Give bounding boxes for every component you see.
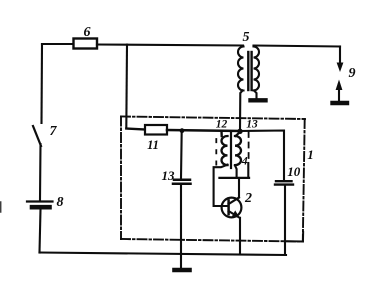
svg-text:11: 11 xyxy=(147,138,159,152)
block 1 dashed boundary top xyxy=(121,117,305,120)
svg-text:1: 1 xyxy=(307,147,314,162)
wire left vertical upper xyxy=(40,44,43,123)
transformer 5 core bar left xyxy=(247,52,249,90)
transistor 2 emitter arrow xyxy=(232,210,240,217)
capacitor 10 bottom plate xyxy=(275,183,293,185)
block 1 dashed boundary right xyxy=(303,119,305,242)
block 1 dashed boundary bottom xyxy=(121,239,303,242)
winding 12 bottom lead to base bracket xyxy=(214,165,228,206)
transistor 2 collector stroke xyxy=(229,198,239,205)
transformer 5 primary winding xyxy=(238,47,244,91)
battery 8 short plate xyxy=(32,205,50,210)
wire collector lead xyxy=(238,178,240,198)
svg-text:10: 10 xyxy=(287,164,301,179)
block 1 boundary bottom right corner xyxy=(287,232,303,242)
wire bottom horizontal xyxy=(40,253,287,256)
winding 14 bottom lead xyxy=(235,166,237,178)
transistor 2 base bar xyxy=(227,200,230,214)
svg-text:13: 13 xyxy=(246,119,258,131)
wire capacitor 13 to ground xyxy=(180,185,182,269)
wire winding junction to capacitor 10 xyxy=(240,131,284,181)
wire top right horizontal xyxy=(254,46,341,47)
svg-text:5: 5 xyxy=(243,30,250,45)
ground bar under output 9 xyxy=(333,101,348,105)
block 1 dashed boundary left xyxy=(120,117,122,240)
transformer core solid line xyxy=(230,132,232,169)
transistor 2 circle xyxy=(222,198,242,218)
wire emitter to bottom xyxy=(239,218,241,255)
junction dot windings xyxy=(237,129,242,134)
capacitor 10 top plate xyxy=(276,180,292,182)
dashed core line right xyxy=(248,132,250,163)
winding 12 xyxy=(222,136,228,165)
resistor 6 xyxy=(74,39,98,49)
wire feed to block (vertical at x=127) xyxy=(125,45,128,129)
transformer 5 core bar right xyxy=(250,52,252,90)
wire transformer5 primary bottom to junction xyxy=(240,91,243,130)
wire top left horizontal xyxy=(42,43,73,45)
wire horizontal bar below winding 14 xyxy=(220,177,250,179)
wire top middle horizontal xyxy=(97,45,243,46)
wire left vertical lower xyxy=(40,210,41,253)
junction dot at resistor output xyxy=(180,128,185,133)
svg-text:9: 9 xyxy=(349,66,356,81)
resistor 11 xyxy=(145,125,167,135)
wire into resistor 11 xyxy=(126,129,145,130)
switch 7 blade xyxy=(33,126,41,146)
output 9 down arrow xyxy=(339,47,341,64)
svg-text:12: 12 xyxy=(216,119,228,131)
wire capacitor 10 to bottom wire xyxy=(284,186,286,256)
transformer 5 secondary winding xyxy=(254,47,260,91)
wire junction to capacitor 13 xyxy=(180,131,183,178)
winding 14 top lead xyxy=(236,133,240,137)
wire resistor 11 to winding junction xyxy=(167,130,240,131)
output 9 up arrow xyxy=(338,84,340,100)
winding 14 xyxy=(235,136,241,165)
svg-text:8: 8 xyxy=(57,195,64,210)
ground bar under transformer 5 xyxy=(251,98,266,102)
svg-text:7: 7 xyxy=(50,124,58,139)
wire transformer5 secondary bottom to ground xyxy=(254,91,257,99)
svg-text:2: 2 xyxy=(244,191,252,206)
dashed core line left xyxy=(215,139,217,168)
transistor 2 emitter stroke xyxy=(229,211,240,218)
left edge scan artifact xyxy=(0,202,2,212)
ground bar under capacitor 13 xyxy=(175,268,190,273)
svg-text:13: 13 xyxy=(162,168,176,183)
winding 12 top lead xyxy=(220,131,223,136)
svg-text:6: 6 xyxy=(84,25,91,40)
battery 8 long plate xyxy=(27,200,53,202)
capacitor 13 top plate xyxy=(174,178,190,181)
wire right dashed line bottom solid xyxy=(247,163,249,178)
wire left vertical middle xyxy=(39,144,42,200)
capacitor 13 bottom plate xyxy=(173,182,191,185)
svg-text:4: 4 xyxy=(241,156,248,168)
